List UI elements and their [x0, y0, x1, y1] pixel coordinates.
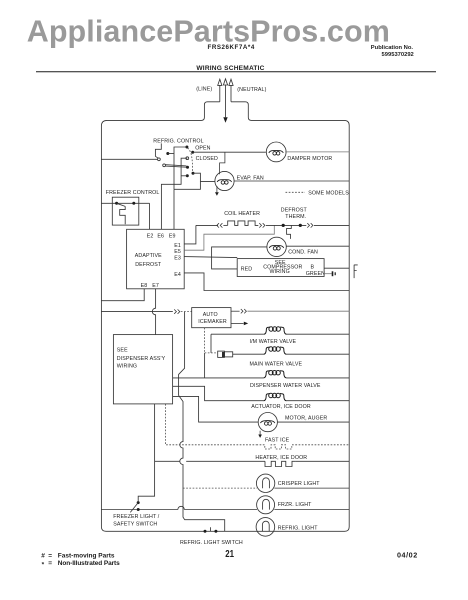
svg-text:Publication No.: Publication No. [371, 45, 414, 51]
svg-text:E9: E9 [169, 233, 176, 239]
bus A dispenser box to safety switch [138, 404, 154, 501]
wire CLOSED contact to damper motor [193, 151, 266, 153]
svg-text:REFRIG. LIGHT SWITCH: REFRIG. LIGHT SWITCH [180, 540, 243, 546]
crisper light row dashed [183, 487, 257, 489]
svg-text:=: = [48, 552, 52, 559]
icemaker row chevrons [174, 309, 180, 313]
svg-text:I/M WATER VALVE: I/M WATER VALVE [250, 339, 297, 345]
wire cond fan feed from red node [212, 247, 267, 269]
svg-text:5995370292: 5995370292 [382, 52, 414, 58]
svg-text:SEE: SEE [117, 347, 128, 353]
svg-text:RED: RED [241, 267, 253, 273]
wire damper motor to right bus [285, 151, 349, 153]
svg-text:FRS26KF7A*4: FRS26KF7A*4 [208, 44, 255, 51]
svg-text:GREEN: GREEN [306, 271, 325, 277]
svg-text:04/02: 04/02 [397, 550, 418, 559]
dashed fast ice to right bus [295, 444, 349, 446]
see dispenser assy wiring box [113, 335, 172, 404]
svg-text:DEFROST: DEFROST [281, 207, 308, 213]
svg-text:E7: E7 [152, 283, 159, 289]
freezer control blade [117, 203, 126, 206]
dashed wire into icemaker [181, 311, 192, 313]
crisper light lamp [256, 474, 274, 492]
E9 riser into adaptive defrost [173, 189, 175, 229]
plug prong ground (center) [223, 79, 227, 123]
heater ice door row [155, 461, 350, 466]
fast ice heater element [256, 445, 295, 449]
svg-text:MAIN WATER VALVE: MAIN WATER VALVE [250, 361, 303, 367]
svg-text:FRZR. LIGHT: FRZR. LIGHT [278, 502, 312, 508]
svg-text:THERM.: THERM. [285, 214, 306, 220]
svg-text:AUTO: AUTO [203, 312, 218, 318]
main water valve row [205, 347, 350, 378]
dashed riser icemaker to main valve [204, 328, 206, 353]
svg-text:Non-Illustrated Parts: Non-Illustrated Parts [58, 560, 120, 567]
wire left bus to icemaker row [101, 311, 172, 313]
wire icemaker to right bus [231, 310, 240, 312]
branch to evap fan from damper node [220, 152, 225, 174]
chassis ground symbol [333, 271, 336, 276]
wire crisper light to right bus [274, 487, 349, 489]
svg-text:COND. FAN: COND. FAN [288, 250, 318, 256]
wire cond fan to right bus [286, 245, 349, 247]
auger motor feed [173, 396, 258, 422]
svg-text:REFRIG. CONTROL: REFRIG. CONTROL [153, 138, 203, 144]
dot on E9 stub [166, 152, 169, 155]
freezer control right contact dot [132, 202, 135, 205]
refrig light lamp [256, 518, 275, 537]
stub aux contact to E6 drop [181, 175, 187, 177]
svg-text:ICEMAKER: ICEMAKER [198, 319, 227, 325]
svg-text:SAFETY SWITCH: SAFETY SWITCH [113, 521, 157, 527]
svg-text:E4: E4 [174, 272, 181, 278]
cond fan motor [267, 237, 286, 256]
cabinet ground bracket at right bus [354, 265, 358, 278]
plug prong LINE [218, 79, 222, 102]
auger motor ground arrow [258, 431, 262, 438]
wire B terminal to right bus [324, 267, 349, 269]
svg-text:DISPENSER WATER VALVE: DISPENSER WATER VALVE [250, 383, 321, 389]
wire E7 riser with hop over icemaker row [152, 289, 155, 335]
svg-text:DEFROST: DEFROST [135, 262, 162, 268]
coil heater element [196, 221, 306, 228]
svg-text:Fast-moving Parts: Fast-moving Parts [58, 552, 115, 559]
wire left bus to freezer control [101, 202, 149, 204]
svg-text:WIRING: WIRING [270, 269, 290, 275]
svg-text:(LINE): (LINE) [196, 87, 212, 93]
svg-text:ADAPTIVE: ADAPTIVE [135, 253, 162, 259]
svg-text:E3: E3 [174, 256, 181, 262]
gray wire to right bus [247, 310, 349, 312]
wire E9 junction to evap node [174, 182, 200, 190]
svg-text:HEATER, ICE DOOR: HEATER, ICE DOOR [255, 455, 307, 461]
svg-text:E6: E6 [157, 233, 164, 239]
label leader refrig control [155, 143, 161, 158]
damper motor M1 [266, 142, 286, 162]
refrig control CLOSED contact dot [191, 151, 194, 154]
freezer control box [112, 197, 139, 225]
adaptive defrost control box [127, 229, 185, 288]
wire auger motor to right bus [277, 421, 349, 423]
plug prong NEUTRAL [229, 79, 233, 102]
svg-text:FAST ICE: FAST ICE [265, 438, 290, 444]
icemaker reference arrow [231, 322, 248, 326]
icemaker right chevrons [241, 309, 247, 313]
bus C: icemaker node down to bottom lights [179, 312, 225, 532]
evap fan motor [215, 171, 234, 190]
main cabinet outline with plug notch [101, 102, 349, 532]
svg-text:OPEN: OPEN [195, 145, 210, 151]
actuator ice door row [173, 386, 349, 400]
svg-text:#: # [41, 552, 45, 559]
legend dashes SOME MODELS [286, 191, 306, 193]
wire frzr light to right bus [274, 509, 349, 511]
svg-text:FREEZER CONTROL: FREEZER CONTROL [106, 190, 160, 196]
auto icemaker box [192, 308, 231, 328]
svg-text:FREEZER LIGHT /: FREEZER LIGHT / [113, 514, 160, 520]
switch gang dashed link [188, 148, 193, 172]
refrig control switch arm pivot contact (hollow) [163, 164, 166, 167]
refrig control switch common contact (hollow) [158, 158, 161, 161]
svg-text:21: 21 [225, 549, 234, 560]
auger motor [258, 413, 277, 432]
wire E1 to coil heater [184, 225, 196, 244]
svg-text:E5: E5 [174, 249, 181, 255]
svg-text:REFRIG. LIGHT: REFRIG. LIGHT [278, 526, 319, 532]
svg-text:CLOSED: CLOSED [196, 156, 218, 162]
svg-text:*: * [42, 562, 45, 569]
refrig control OPEN contact dot [185, 146, 188, 149]
svg-text:=: = [48, 560, 52, 567]
compressor wiring box [237, 259, 324, 277]
dispenser water valve row [173, 371, 349, 378]
svg-text:CRISPER LIGHT: CRISPER LIGHT [278, 481, 321, 487]
svg-text:E8: E8 [141, 283, 148, 289]
wire: left bus to refrig control common [101, 158, 157, 160]
I/M water valve row [211, 327, 349, 353]
svg-text:MOTOR, AUGER: MOTOR, AUGER [285, 416, 327, 422]
wire evap fan to right bus [234, 180, 349, 182]
wire GREEN to chassis ground [324, 273, 332, 275]
svg-text:EVAP. FAN: EVAP. FAN [237, 176, 264, 182]
refrig control switch arm (double line) [166, 165, 187, 168]
svg-text:WIRING SCHEMATIC: WIRING SCHEMATIC [196, 65, 264, 72]
svg-text:DAMPER MOTOR: DAMPER MOTOR [287, 156, 332, 162]
stub dot to E9 riser [168, 153, 174, 155]
svg-text:COIL HEATER: COIL HEATER [224, 211, 260, 217]
refrig control arm end dot [186, 166, 189, 169]
refrig control lower hollow contact [186, 157, 189, 160]
refrig control fan contact dot [192, 172, 195, 175]
svg-text:E2: E2 [147, 233, 154, 239]
freezer control bimetal staircase [120, 206, 126, 224]
heading underline [36, 71, 436, 73]
refrig light switch on bottom edge [204, 527, 218, 533]
svg-text:DISPENSER ASS'Y: DISPENSER ASS'Y [117, 356, 166, 362]
wire OPEN contact to E9 riser [174, 147, 187, 189]
wire lower hollow contact to E6 riser [161, 158, 187, 229]
wire freezer control to E2 riser [149, 203, 151, 229]
defrost thermostat [282, 223, 350, 239]
dashed bus B dispenser to fast ice [165, 404, 256, 445]
wire E3 to compressor [184, 257, 237, 258]
wire fan contact to evap fan [193, 173, 215, 181]
freezer light safety switch [101, 501, 139, 512]
svg-text:ACTUATOR, ICE DOOR: ACTUATOR, ICE DOOR [251, 404, 311, 410]
frzr light lamp [257, 496, 275, 514]
svg-text:WIRING: WIRING [117, 364, 137, 370]
svg-text:B: B [311, 265, 315, 271]
frzr light row with hop [140, 506, 258, 509]
wire E5 sense line [184, 225, 274, 250]
evap fan ground arrow [215, 186, 219, 196]
svg-text:SOME MODELS: SOME MODELS [308, 191, 349, 197]
freezer control left contact dot [115, 202, 118, 205]
wire E8 to left bus [101, 289, 144, 301]
svg-text:(NEUTRAL): (NEUTRAL) [237, 87, 266, 93]
refrig control aux contact dot [186, 174, 189, 177]
wire E4 return to right bus [184, 273, 349, 291]
